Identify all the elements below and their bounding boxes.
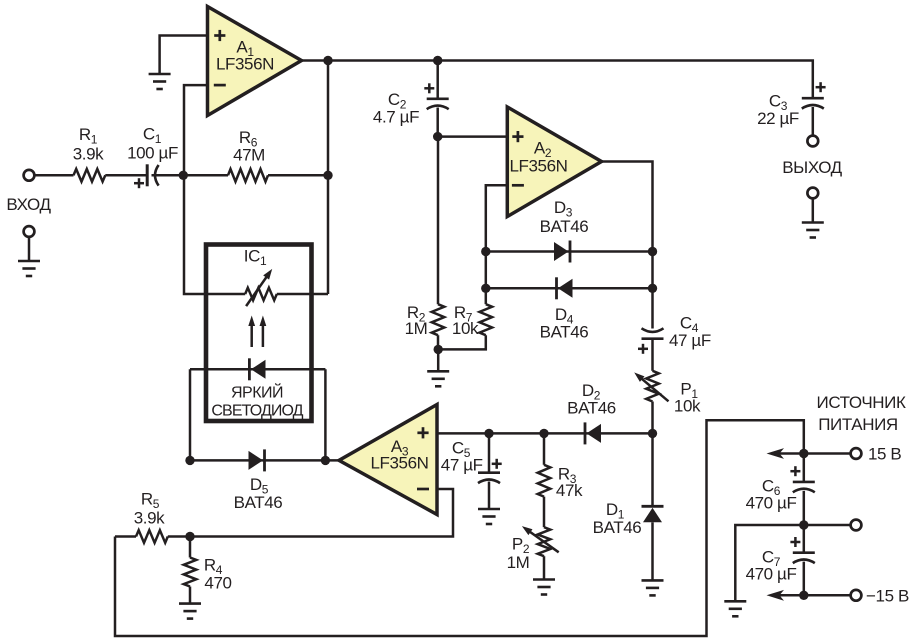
ground at D1 — [642, 580, 664, 595]
wire node to R4 — [189, 537, 192, 558]
svg-text:100 µF: 100 µF — [127, 144, 178, 163]
resistor R5 — [134, 490, 168, 543]
capacitor C2 — [373, 83, 449, 126]
wire R7 bottom — [438, 335, 486, 349]
node +15V — [799, 449, 808, 458]
node mid supply — [799, 520, 808, 529]
label ЯРКИЙ — [231, 383, 283, 402]
svg-text:ПИТАНИЯ: ПИТАНИЯ — [818, 415, 898, 434]
wire C3 to output terminal — [812, 107, 815, 136]
wire A1 non-inverting input to ground — [160, 36, 208, 75]
svg-text:1M: 1M — [405, 319, 428, 338]
ground at output — [802, 223, 824, 238]
terminal input — [24, 170, 35, 181]
wire A1 inverting input down to input node — [184, 85, 208, 176]
wire A2 output — [602, 162, 653, 329]
wire input ground terminal — [28, 237, 31, 261]
resistor R4 — [184, 556, 232, 593]
svg-text:10k: 10k — [674, 397, 701, 416]
resistor R2 — [405, 303, 445, 338]
wire A3 + input row — [437, 432, 653, 435]
wire C2 top — [436, 61, 439, 98]
wire C7 to -15V node — [803, 562, 806, 596]
wire mid to terminal — [804, 524, 851, 527]
svg-text:BAT46: BAT46 — [540, 217, 589, 236]
wire mid node to ground — [735, 525, 804, 601]
wire C6 to mid node — [803, 491, 806, 525]
wire loop to R5 — [115, 535, 136, 538]
wire bottom loop — [115, 420, 804, 636]
wire photoresistor left — [184, 175, 245, 294]
wire input terminal to R1 — [34, 174, 73, 177]
wire node to R6 — [184, 174, 228, 177]
resistor R6 — [228, 128, 268, 182]
node D4 right — [648, 284, 657, 293]
ground at supply — [724, 601, 746, 616]
wire C4 to P1 — [651, 339, 654, 371]
wire C2 to A2 + node — [436, 108, 439, 137]
label СВЕТОДИОД — [211, 402, 303, 419]
ground at R4 — [179, 604, 201, 619]
wire LED left leg — [189, 369, 192, 460]
node R6/A1 output column — [323, 171, 332, 180]
wire R1 to C1 — [105, 174, 146, 177]
node A2 + / R2 — [433, 132, 442, 141]
diode D4 — [540, 277, 589, 341]
wire LED right leg — [324, 369, 327, 460]
ground at P2 — [533, 580, 555, 595]
op-amp A3 — [339, 405, 437, 515]
label 15 В — [868, 445, 901, 464]
terminal output — [807, 136, 818, 147]
wire P1 to node — [651, 402, 654, 434]
capacitor C1 — [127, 124, 178, 188]
svg-text:10k: 10k — [452, 319, 479, 338]
wire R2 top — [437, 137, 440, 305]
capacitor C4 — [638, 314, 711, 354]
wire to ground R2R7 — [437, 349, 440, 371]
resistor R3 — [538, 433, 583, 500]
terminal mid supply — [851, 520, 862, 531]
svg-text:22 µF: 22 µF — [757, 109, 799, 128]
svg-text:СВЕТОДИОД: СВЕТОДИОД — [211, 402, 303, 419]
label ИСТОЧНИК — [817, 393, 906, 412]
node D5 right / A3 output — [321, 456, 330, 465]
svg-text:ИСТОЧНИК: ИСТОЧНИК — [817, 393, 906, 412]
capacitor C7 — [746, 525, 815, 583]
svg-text:470: 470 — [204, 574, 231, 593]
light arrow 1 — [248, 316, 255, 348]
wire R5 to node — [168, 535, 190, 538]
capacitor C5 — [441, 433, 502, 483]
wire -15V to terminal — [804, 594, 851, 597]
svg-text:BAT46: BAT46 — [234, 493, 283, 512]
label -15 В — [866, 586, 909, 605]
wire R6 to feedback column — [268, 174, 328, 177]
svg-text:LF356N: LF356N — [370, 453, 428, 472]
node D2/P1/D1 — [648, 429, 657, 438]
svg-text:47 µF: 47 µF — [441, 455, 483, 474]
resistor R1 — [73, 125, 106, 182]
resistor R7 — [452, 303, 492, 338]
node -15V — [799, 591, 808, 600]
wire D4 row — [486, 287, 653, 290]
op-amp A1 — [208, 7, 302, 116]
terminal -15V — [851, 590, 862, 601]
wire A2 + input — [438, 135, 508, 138]
diode D2 — [567, 381, 616, 444]
terminal +15V — [851, 448, 862, 459]
node A1 output — [323, 56, 332, 65]
svg-text:3.9k: 3.9k — [73, 144, 104, 163]
IC1 box — [206, 245, 312, 422]
wire R7 top — [485, 288, 488, 304]
wire +15V to terminal — [804, 452, 851, 455]
terminal output ground — [807, 188, 818, 199]
ground at A1 + input — [149, 74, 171, 89]
wire R3 to P2 — [543, 497, 546, 528]
node input/C1/R6/A1- — [179, 171, 188, 180]
node C5 top — [484, 429, 493, 438]
ground at R2/R7 — [427, 371, 449, 386]
node D5 left — [185, 456, 194, 465]
svg-text:470 µF: 470 µF — [746, 564, 797, 583]
diode D3 — [540, 198, 589, 263]
svg-text:4.7 µF: 4.7 µF — [373, 108, 419, 127]
wire C1 to node A1 inverting — [152, 174, 185, 177]
svg-text:LF356N: LF356N — [509, 157, 567, 176]
svg-text:470 µF: 470 µF — [746, 494, 797, 513]
label ВХОД — [6, 195, 51, 214]
wire output rail of A1 to C3 — [302, 61, 813, 98]
node D3 right — [648, 247, 657, 256]
label ВЫХОД — [782, 158, 842, 177]
wire D5 row — [190, 459, 339, 462]
wire C5 to ground — [488, 482, 491, 510]
wire D3-D4 left column — [485, 252, 488, 289]
ground at C5 — [478, 509, 500, 524]
wire D1 to ground — [651, 522, 654, 580]
label ПИТАНИЯ — [818, 415, 898, 434]
wire R2 bottom — [437, 335, 440, 349]
svg-text:ЯРКИЙ: ЯРКИЙ — [231, 383, 283, 402]
node R3 top — [539, 429, 548, 438]
wire output ground terminal — [812, 198, 815, 222]
svg-text:BAT46: BAT46 — [593, 518, 642, 537]
arrow +15V rail — [767, 448, 804, 459]
svg-text:ВХОД: ВХОД — [6, 195, 51, 214]
op-amp A2 — [507, 107, 601, 217]
wire photoresistor right — [277, 293, 328, 296]
terminal input ground — [24, 226, 35, 237]
label IC1 — [244, 247, 267, 269]
node R5/R4/D5 junction — [185, 532, 194, 541]
wire A3 inverting feedback — [190, 489, 453, 537]
svg-text:LF356N: LF356N — [216, 55, 274, 74]
wire P2 to ground — [543, 556, 546, 579]
svg-text:47k: 47k — [556, 481, 583, 500]
svg-text:ВЫХОД: ВЫХОД — [782, 158, 842, 177]
diode D1 — [593, 433, 664, 537]
svg-text:15 В: 15 В — [868, 445, 901, 464]
svg-text:1M: 1M — [507, 553, 530, 572]
photoresistor of IC1 — [245, 269, 277, 306]
wire A1 output feedback column — [327, 61, 330, 295]
light arrow 2 — [260, 316, 267, 348]
wire A2 inverting to D3 row — [486, 185, 508, 251]
svg-text:BAT46: BAT46 — [567, 398, 616, 417]
wire D3 row — [486, 250, 653, 253]
svg-text:47 µF: 47 µF — [669, 331, 711, 350]
svg-text:47M: 47M — [233, 145, 265, 164]
LED of IC1 (wire) — [190, 368, 325, 371]
node R2/R7 ground — [434, 345, 443, 354]
potentiometer P2 — [507, 526, 559, 572]
svg-text:−15 В: −15 В — [866, 586, 909, 605]
wire R4 to ground — [189, 587, 192, 604]
capacitor C3 — [757, 82, 826, 128]
diode D5 — [234, 449, 283, 512]
node D3 left — [481, 247, 490, 256]
capacitor C6 — [746, 454, 815, 513]
ground at input — [18, 261, 40, 276]
svg-text:3.9k: 3.9k — [134, 509, 165, 528]
potentiometer P1 — [634, 371, 701, 416]
node D4 left — [481, 284, 490, 293]
LED of IC1 — [249, 358, 265, 380]
svg-text:BAT46: BAT46 — [540, 322, 589, 341]
arrow -15V rail — [767, 590, 804, 601]
node C2 top — [433, 56, 442, 65]
